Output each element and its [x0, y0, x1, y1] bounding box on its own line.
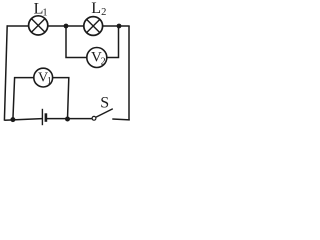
- node bottom-left: [10, 117, 15, 122]
- wire node B to top-right corner: [119, 25, 130, 27]
- wire switch to bottom-right corner: [112, 118, 129, 121]
- wire left border vertical: [4, 25, 7, 120]
- voltmeter V2: [87, 48, 107, 68]
- node B: [117, 24, 122, 29]
- svg-text:2: 2: [101, 56, 106, 67]
- wire right border vertical: [128, 26, 130, 121]
- voltmeter V1: [34, 68, 53, 87]
- switch S: [92, 109, 113, 120]
- wire battery to switch: [46, 118, 92, 120]
- battery: [42, 109, 46, 125]
- wire top-left horizontal: [7, 25, 29, 27]
- node bottom-middle: [65, 117, 70, 122]
- wire L2 to node B: [103, 25, 119, 27]
- wire V1 left down to bottom: [13, 78, 34, 120]
- lamp L1: [29, 16, 48, 35]
- svg-text:1: 1: [47, 77, 52, 87]
- wire node A to L2: [66, 25, 84, 27]
- svg-text:S: S: [100, 94, 109, 111]
- svg-text:L2: L2: [91, 0, 106, 18]
- wire L1 to node A: [48, 25, 66, 27]
- svg-text:L1: L1: [34, 1, 48, 19]
- wire V1 right down to bottom: [53, 78, 69, 119]
- wire bottom-left to battery: [4, 119, 42, 121]
- lamp L2: [84, 17, 103, 36]
- wire node A down to V2 branch: [66, 26, 87, 58]
- wire V2 right up to node B: [107, 26, 119, 58]
- node A: [64, 24, 69, 29]
